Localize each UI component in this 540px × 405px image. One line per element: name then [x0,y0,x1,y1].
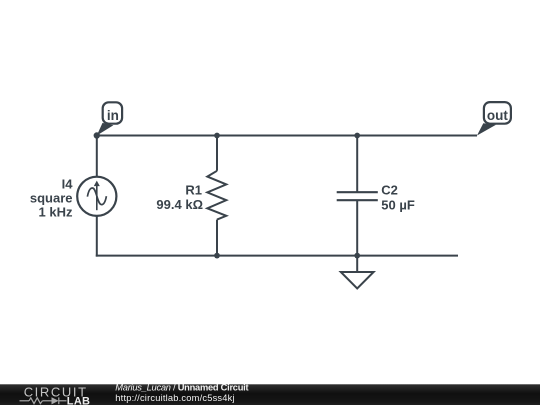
node dot in [94,132,100,138]
label I4 [30,176,73,219]
svg-text:in: in [107,108,119,123]
current source arrow head [94,181,100,187]
wire left branch lower [96,216,98,257]
svg-text:square: square [30,190,73,205]
current source I4 circle [77,177,116,216]
svg-text:1 kHz: 1 kHz [39,205,73,220]
node flag in pointer [97,123,114,136]
wire R1 branch lower [216,220,218,256]
wire C2 branch lower [356,200,358,255]
svg-text:R1: R1 [185,182,202,197]
junction dot C2 top [354,133,360,139]
svg-text:99.4 kΩ: 99.4 kΩ [156,197,203,212]
logo schematic row [20,397,67,404]
logo diode [52,397,59,404]
junction dot R1 top [214,133,220,139]
svg-text:I4: I4 [62,176,74,191]
node flag out pointer [477,123,496,135]
resistor R1 zigzag [207,171,226,220]
capacitor C2 plates [337,191,378,193]
wire bottom rail [96,255,458,257]
node flag in box [103,102,122,123]
svg-text:Marius_Lucan / Unnamed Circuit: Marius_Lucan / Unnamed Circuit [115,383,248,393]
svg-text:LAB: LAB [67,395,91,405]
label R1 [156,182,203,212]
wire left branch upper [96,136,98,177]
current source arrow shaft [96,185,98,210]
svg-text:50 µF: 50 µF [381,197,415,212]
wire top rail [97,135,477,137]
ground stub wire [356,256,358,272]
svg-text:out: out [487,108,508,123]
node flag out box [484,102,511,124]
svg-text:http://circuitlab.com/c5ss4kj: http://circuitlab.com/c5ss4kj [115,393,234,403]
wire R1 branch upper [216,136,218,171]
label C2 [381,183,415,213]
current source sine wave [87,188,106,205]
wire C2 branch upper [356,136,358,193]
ground symbol [341,272,374,289]
junction dot ground [354,253,360,259]
junction dot R1 bottom [214,253,220,259]
svg-text:C2: C2 [381,183,398,198]
